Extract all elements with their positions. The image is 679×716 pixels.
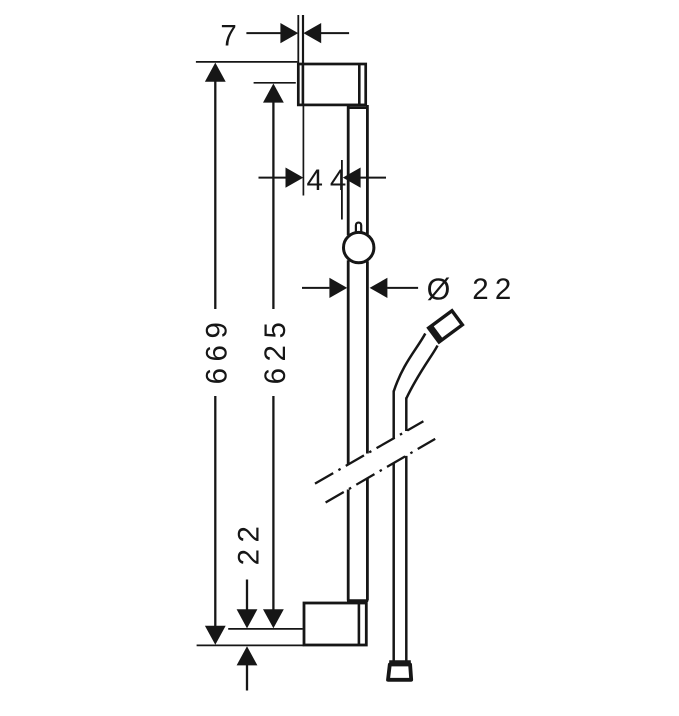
dimension 669: lower shaft (214, 396, 216, 626)
dimension 22: lower shaft (246, 665, 248, 691)
hose connector collar band (430, 326, 442, 342)
dimension 22: upper shaft (246, 580, 248, 611)
extension line bottom (669 ref) (197, 644, 304, 646)
dimension 44: right arrowhead pointing left (343, 168, 361, 188)
dimension 7: right arrowhead pointing right (280, 23, 298, 43)
dimension Ø22: right tail (387, 287, 418, 289)
hose right line (above break) (405, 398, 408, 432)
dimension Ø22: right arrowhead pointing left (370, 278, 388, 298)
svg-text:7: 7 (220, 19, 236, 52)
dimension Ø22: left tail (302, 287, 329, 289)
rail right edge (bottom section) (366, 478, 369, 600)
hose left line (below break) (392, 463, 395, 661)
top wall bracket: lower lip over rail (347, 106, 367, 109)
dimension 7: left tail (246, 32, 281, 34)
dimension Ø22: left arrowhead pointing right (329, 278, 347, 298)
top wall bracket: outer rectangle (298, 64, 365, 105)
wall line pair: right (thick) above bracket (302, 15, 304, 63)
hose left line (above break) (392, 391, 395, 439)
dimension 44: right extension tick (341, 160, 343, 220)
dimension 44: left arrowhead pointing right (286, 168, 304, 188)
svg-text:Ø: Ø (427, 272, 451, 306)
slider ring (344, 232, 374, 262)
top wall bracket: inner left plate line (302, 64, 305, 105)
hose end fitting: collar bar (389, 660, 411, 665)
hose curve left line (394, 334, 426, 392)
rail left edge (mid section) (347, 260, 350, 464)
dimension 44: left extension line (from bracket) (302, 105, 304, 196)
dimension 625: top arrowhead (up) (263, 84, 284, 103)
wall line pair: left (thin) above bracket (297, 15, 299, 63)
svg-text:44: 44 (307, 164, 354, 197)
extension line top (625 ref) (254, 82, 296, 84)
dimension 625: upper shaft (272, 102, 274, 309)
bottom wall bracket: inner right line (358, 603, 361, 645)
dimension 22: up arrowhead (237, 646, 258, 665)
dimension 7: right tail (321, 32, 349, 34)
extension line top (669 ref) (196, 61, 298, 63)
svg-text:669: 669 (200, 316, 233, 385)
svg-text:625: 625 (259, 316, 292, 385)
hose curve right line (406, 346, 437, 399)
dimension 44: left tail (259, 177, 287, 179)
bottom wall bracket: upper lip over rail (347, 599, 368, 602)
break line lower (dash-dot) (326, 439, 436, 503)
dimension 7: left arrowhead pointing left (303, 23, 321, 43)
hose right line (below break) (405, 456, 408, 662)
bottom wall bracket: outer rectangle (304, 603, 366, 645)
hose end fitting: body (388, 665, 411, 680)
rail left edge (bottom section) (347, 490, 350, 601)
dimension 669: bottom arrowhead (down) (205, 626, 226, 645)
extension line bottom (625/22 ref) (228, 628, 303, 630)
dimension 625: bottom arrowhead (down) (263, 609, 284, 628)
break line upper (dash-dot) (315, 421, 423, 483)
hose connector nut (rotated) (428, 310, 463, 343)
dimension 669: top arrowhead (up) (205, 63, 226, 82)
rail right edge (mid section) (366, 261, 369, 453)
dimension 669: upper shaft (214, 81, 216, 309)
rail right edge (top section) (366, 105, 369, 234)
rail left edge (top section) (347, 105, 350, 235)
slider tab (hook on top) (356, 223, 361, 233)
svg-text:22: 22 (232, 520, 265, 566)
top wall bracket: inner right line (358, 64, 361, 105)
dimension 22: down arrowhead (237, 609, 258, 628)
svg-text:22: 22 (472, 273, 517, 306)
dimension 625: lower shaft (272, 396, 274, 610)
dimension 44: right tail (360, 177, 386, 179)
